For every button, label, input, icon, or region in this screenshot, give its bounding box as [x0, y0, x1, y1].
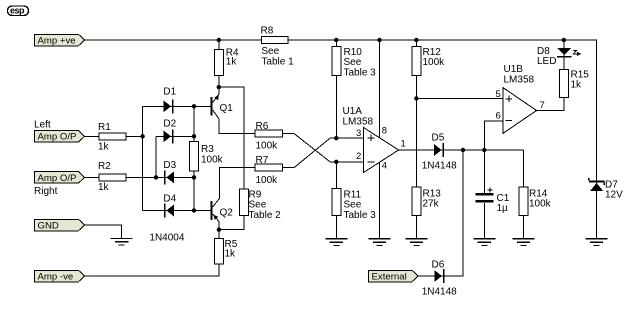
- transistor Q2: [211, 201, 234, 220]
- wire: Q2 emitter lead: [213, 214, 219, 230]
- wire: U1A pin 8 supply lead: [379, 40, 381, 138]
- wire: divider tap to U1B pin 5: [416, 97, 502, 99]
- junction: D4 anode / R3 bottom: [192, 208, 196, 212]
- svg-text:R6: R6: [256, 121, 269, 132]
- junction: +ve rail / D8: [562, 38, 566, 42]
- junction: divider tap / U1B pin 5: [414, 96, 418, 100]
- U1B pin 6 label: [496, 110, 501, 121]
- svg-text:1k: 1k: [225, 249, 237, 260]
- port Amp -ve: [35, 270, 85, 282]
- junction: C1 / U1B pin 6: [482, 148, 486, 152]
- wire: node B - inner bus joining D2 anode / D3 cathode: [155, 136, 157, 177]
- svg-text:LED: LED: [537, 56, 556, 67]
- resistor R4 1k: [214, 48, 239, 76]
- svg-text:R2: R2: [98, 161, 111, 172]
- port Amp +ve: [35, 34, 85, 46]
- svg-text:1k: 1k: [98, 142, 110, 153]
- resistor R13 27k: [412, 187, 441, 216]
- wire: Q2 collector up and R7 row into U1A pin 3: [213, 138, 364, 207]
- svg-text:4: 4: [382, 161, 387, 172]
- svg-text:D4: D4: [163, 194, 176, 205]
- svg-text:27k: 27k: [423, 199, 440, 210]
- diode D4 (1N4004): [163, 194, 176, 218]
- svg-text:6: 6: [496, 110, 501, 121]
- LED D8: [537, 46, 581, 67]
- svg-text:Q1: Q1: [220, 103, 234, 114]
- port External: [369, 270, 419, 282]
- junction: +ve rail / pin 8: [377, 38, 381, 42]
- svg-text:R1: R1: [98, 122, 111, 133]
- svg-text:U1A: U1A: [343, 106, 363, 117]
- svg-text:1k: 1k: [226, 57, 238, 68]
- port Amp O/P (right): [35, 172, 85, 184]
- svg-text:Amp O/P: Amp O/P: [38, 132, 77, 143]
- label 1N4004: [149, 233, 184, 244]
- svg-text:esp: esp: [10, 6, 25, 16]
- wire: node A - left bus joining D1 anode / D4 cathode: [142, 106, 144, 210]
- diode D2 (1N4004): [163, 119, 176, 144]
- svg-text:1: 1: [401, 139, 406, 150]
- junction: D2 cathode: [192, 134, 196, 138]
- svg-text:See: See: [261, 46, 279, 57]
- diode D5 1N4148: [422, 133, 457, 172]
- svg-text:See: See: [344, 57, 362, 68]
- wire: U1A pin 4 lead to ground: [379, 162, 381, 238]
- ground (R14): [512, 239, 534, 246]
- esp logo: [8, 6, 29, 16]
- svg-text:D3: D3: [163, 160, 176, 171]
- wire: U1B pin 6 feedback to C1 node: [484, 121, 503, 150]
- wire: left input row through R1 to left bus: [85, 135, 143, 137]
- ground (R13): [405, 239, 427, 246]
- svg-text:1N4148: 1N4148: [422, 161, 457, 172]
- resistor R6 100k: [255, 121, 282, 152]
- ground (GND tag): [111, 238, 133, 245]
- junction: R10 / U1A pin 3: [334, 136, 338, 140]
- resistor R15 1k: [559, 69, 589, 97]
- capacitor C1 1u: [475, 187, 509, 214]
- svg-text:See: See: [249, 200, 267, 211]
- svg-text:5: 5: [496, 89, 501, 100]
- svg-text:Table 3: Table 3: [344, 210, 377, 221]
- svg-text:Amp O/P: Amp O/P: [38, 173, 77, 184]
- svg-text:100k: 100k: [529, 199, 552, 210]
- junction: R11 / U1A pin 2: [334, 160, 338, 164]
- wire: R10 branch from +ve rail to U1A pin 3: [335, 40, 337, 138]
- svg-text:Q2: Q2: [220, 208, 234, 219]
- resistor R12 100k: [412, 46, 445, 75]
- svg-text:Table 2: Table 2: [249, 210, 282, 221]
- svg-text:1N4004: 1N4004: [149, 233, 184, 244]
- wire: external input row through D6 up to C1 node: [418, 150, 463, 276]
- label Right: [34, 186, 58, 197]
- wire: R11 branch from U1A pin 2 to ground: [335, 162, 337, 239]
- U1B pin 5 label: [496, 89, 501, 100]
- svg-text:LM358: LM358: [504, 75, 535, 86]
- svg-text:Table 1: Table 1: [261, 57, 294, 68]
- U1A pin 4 label: [382, 161, 387, 172]
- wire: D1 row from left bus to Q1 base: [143, 105, 211, 107]
- resistor R1 1k: [98, 122, 126, 153]
- svg-text:1k: 1k: [98, 182, 110, 193]
- wire: U1A output row through D5 to C1 node and R14 drop: [399, 150, 524, 239]
- wire: D4 row from left bus to Q2 base: [143, 210, 211, 212]
- wire: Q1 emitter node across to R9 and down to Q2 emitter node: [219, 87, 244, 230]
- svg-text:12V: 12V: [605, 190, 623, 201]
- resistor R10 See Table 3: [332, 46, 376, 78]
- svg-text:1µ: 1µ: [497, 203, 509, 214]
- junction: +ve rail / R4: [217, 38, 221, 42]
- resistor R7 100k: [255, 155, 282, 186]
- port GND: [35, 219, 85, 231]
- resistor R9 See Table 2: [240, 189, 281, 221]
- wire: GND tag lead to ground symbol: [85, 225, 122, 238]
- U1B pin 7 label: [540, 100, 545, 111]
- svg-text:Amp -ve: Amp -ve: [38, 271, 74, 282]
- svg-text:R8: R8: [261, 26, 274, 37]
- transistor Q1: [211, 95, 234, 116]
- resistor R5 1k: [214, 239, 237, 264]
- svg-text:U1B: U1B: [504, 64, 524, 75]
- junction: Q2 emitter / R5 / R9: [217, 228, 221, 232]
- ground (C1): [473, 239, 495, 246]
- svg-text:2: 2: [356, 151, 361, 162]
- junction: +ve rail / R10: [334, 38, 338, 42]
- junction: D5 cathode / D6: [461, 148, 465, 152]
- svg-text:7: 7: [540, 100, 545, 111]
- wire: D2 anode row: [156, 135, 194, 137]
- svg-text:External: External: [372, 271, 407, 282]
- junction: R4 / Q1 emitter / R9: [217, 85, 221, 89]
- wire: C1 top lead: [483, 150, 485, 193]
- svg-text:Right: Right: [34, 186, 58, 197]
- wire: U1B output to R15 / D8 branch: [537, 40, 564, 111]
- junction: D1 cathode / R3 top: [192, 104, 196, 108]
- ground (R11): [325, 239, 347, 246]
- svg-text:3: 3: [356, 128, 361, 139]
- svg-text:100k: 100k: [256, 175, 279, 186]
- svg-text:See: See: [344, 200, 362, 211]
- junction: +ve rail / R12: [414, 38, 418, 42]
- wire: C1 bottom lead to ground: [483, 203, 485, 239]
- svg-text:R3: R3: [201, 144, 214, 155]
- resistor R8 See Table 1: [261, 26, 295, 68]
- svg-text:Left: Left: [34, 120, 51, 131]
- svg-text:100k: 100k: [201, 155, 224, 166]
- U1A pin 3 label: [356, 128, 361, 139]
- svg-text:D1: D1: [163, 87, 176, 98]
- junction: R1 / left bus: [140, 134, 144, 138]
- zener diode D7 12V: [589, 178, 623, 201]
- resistor R14 100k: [519, 187, 552, 216]
- op-amp U1A LM358: [343, 106, 399, 173]
- diode D3 (1N4004): [163, 160, 176, 184]
- resistor R2 1k: [98, 161, 126, 193]
- wire: right input row through R2 to D3: [85, 176, 195, 178]
- label Left: [34, 120, 51, 131]
- svg-text:1k: 1k: [571, 80, 583, 91]
- wire: R12/R13 divider branch from +ve rail to ground: [415, 40, 417, 239]
- wire: R3 vertical bus between diode rows: [193, 106, 195, 210]
- wire: R4 branch from +ve rail to Q1 emitter node: [218, 40, 220, 87]
- svg-text:1N4148: 1N4148: [422, 287, 457, 298]
- svg-text:D5: D5: [432, 133, 445, 144]
- ground (U1A pin 4): [369, 239, 391, 246]
- wire: Q1 emitter lead: [213, 87, 219, 102]
- junction: R2 / inner bus: [154, 175, 158, 179]
- port Amp O/P (left): [35, 131, 85, 143]
- svg-text:LM358: LM358: [343, 117, 374, 128]
- op-amp U1B LM358: [503, 64, 537, 134]
- resistor R3 100k: [190, 142, 224, 171]
- svg-text:D6: D6: [432, 260, 445, 271]
- U1A pin 8 label: [382, 126, 387, 137]
- ground (D7): [586, 239, 608, 246]
- diode D1 (1N4004): [163, 87, 176, 114]
- svg-text:Table 3: Table 3: [344, 68, 377, 79]
- svg-text:100k: 100k: [423, 57, 446, 68]
- wire: Q1 collector down and R6 row into U1A pin 2: [213, 110, 364, 162]
- wire: Amp +ve supply rail (top) with right-edge drop to D7: [85, 40, 597, 239]
- svg-text:GND: GND: [38, 220, 59, 231]
- svg-text:D2: D2: [163, 119, 176, 130]
- resistor R11 See Table 3: [332, 189, 376, 221]
- svg-text:Amp +ve: Amp +ve: [38, 35, 76, 46]
- U1A pin 1 label: [401, 139, 406, 150]
- U1A pin 2 label: [356, 151, 361, 162]
- svg-text:8: 8: [382, 126, 387, 137]
- diode D6 1N4148: [422, 260, 457, 298]
- svg-text:R7: R7: [256, 155, 269, 166]
- junction: D3 anode: [192, 175, 196, 179]
- wire: Q2 emitter node through R5 to Amp -ve rail (bottom): [85, 230, 219, 276]
- svg-text:100k: 100k: [256, 141, 279, 152]
